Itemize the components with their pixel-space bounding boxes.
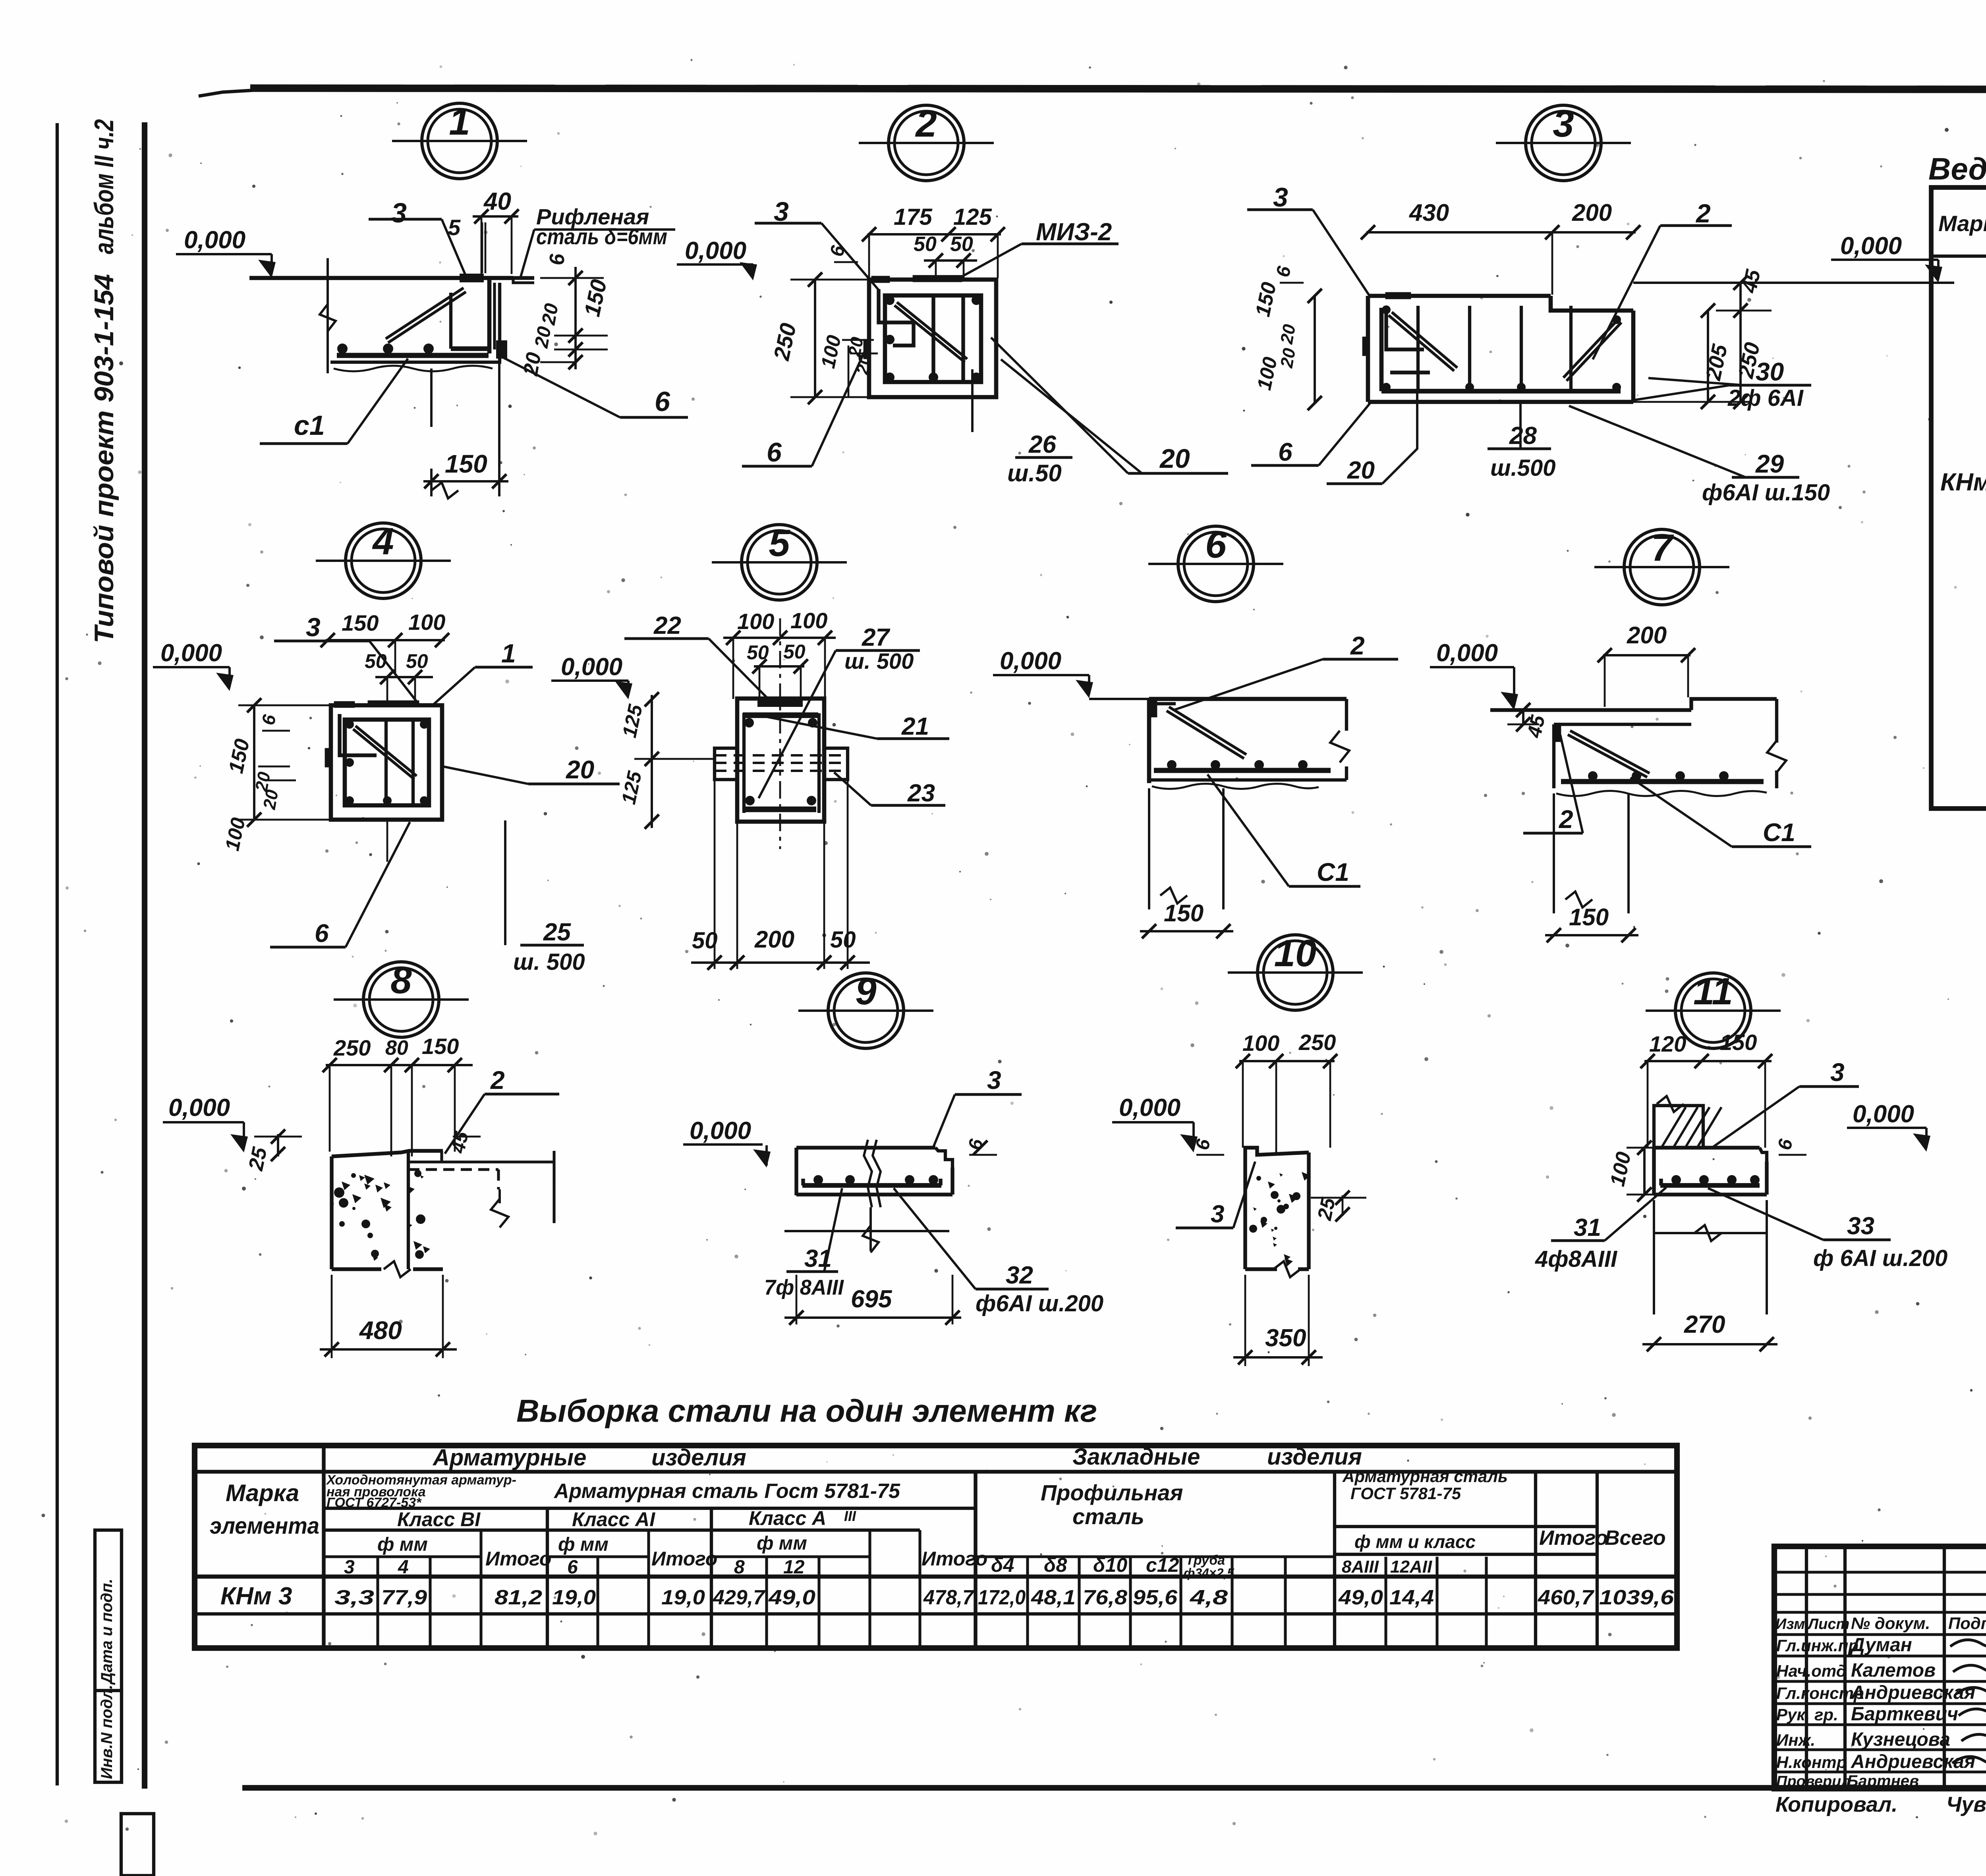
svg-text:Арматурные: Арматурные [432, 1445, 586, 1471]
svg-text:Марка: Марка [226, 1480, 299, 1506]
svg-text:3: 3 [1211, 1200, 1224, 1228]
svg-text:Закладные: Закладные [1072, 1444, 1200, 1470]
svg-text:20: 20 [1347, 457, 1375, 484]
svg-text:270: 270 [1684, 1311, 1725, 1338]
svg-text:Класс А: Класс А [749, 1507, 826, 1529]
svg-text:150: 150 [445, 450, 487, 478]
svg-text:25: 25 [543, 919, 571, 946]
svg-text:7: 7 [1651, 527, 1674, 569]
svg-text:3: 3 [1553, 102, 1574, 145]
svg-text:Ведомость стержней на один: Ведомость стержней на один элемент [1928, 151, 1986, 186]
svg-text:0,000: 0,000 [1840, 232, 1902, 260]
svg-text:49,0: 49,0 [1338, 1586, 1383, 1609]
svg-text:50: 50 [950, 233, 973, 256]
svg-text:95,6: 95,6 [1133, 1586, 1178, 1609]
svg-text:4: 4 [398, 1557, 409, 1578]
svg-text:10: 10 [1274, 932, 1317, 975]
svg-text:480: 480 [359, 1316, 402, 1345]
svg-text:429,7: 429,7 [713, 1586, 765, 1609]
svg-text:460,7: 460,7 [1538, 1586, 1594, 1609]
svg-text:48,1: 48,1 [1031, 1586, 1076, 1609]
svg-text:8: 8 [390, 959, 412, 1002]
svg-text:2: 2 [1695, 199, 1711, 228]
svg-text:δ4: δ4 [991, 1554, 1014, 1576]
svg-text:Итого: Итого [651, 1548, 717, 1570]
svg-text:50: 50 [830, 927, 856, 953]
svg-text:Итого: Итого [485, 1548, 551, 1570]
svg-text:50: 50 [406, 650, 428, 672]
svg-text:172,0: 172,0 [978, 1586, 1026, 1609]
svg-text:3: 3 [391, 197, 407, 228]
svg-text:сталь δ=6мм: сталь δ=6мм [536, 224, 667, 249]
svg-text:20: 20 [538, 302, 562, 327]
svg-text:КНм 3: КНм 3 [1940, 469, 1986, 496]
svg-text:175: 175 [894, 204, 933, 230]
svg-text:20: 20 [1277, 323, 1299, 346]
svg-text:22: 22 [653, 612, 681, 639]
svg-text:31: 31 [1574, 1214, 1601, 1241]
svg-text:c1: c1 [294, 410, 325, 441]
svg-text:150: 150 [1720, 1030, 1757, 1055]
svg-text:50: 50 [914, 233, 937, 256]
svg-text:100: 100 [790, 608, 827, 633]
svg-text:Типовой проект 903-1-154: Типовой проект 903-1-154 [89, 274, 119, 643]
svg-text:Выборка стали на один: Выборка стали на один элемент кг [516, 1393, 1097, 1428]
svg-text:0,000: 0,000 [561, 653, 622, 681]
svg-text:Проверил: Проверил [1776, 1773, 1851, 1790]
svg-text:9: 9 [855, 970, 876, 1013]
svg-text:изделия: изделия [1267, 1444, 1362, 1470]
svg-text:3: 3 [306, 612, 321, 642]
svg-text:4,8: 4,8 [1190, 1586, 1228, 1609]
svg-text:ш. 500: ш. 500 [513, 949, 585, 975]
svg-text:Дата и подп.: Дата и подп. [98, 1579, 116, 1685]
svg-text:0,000: 0,000 [1853, 1100, 1914, 1128]
svg-text:7ф 8АІІІ: 7ф 8АІІІ [764, 1276, 844, 1299]
svg-text:Арматурная сталь: Арматурная сталь [1342, 1467, 1508, 1486]
svg-text:c12: c12 [1146, 1554, 1179, 1576]
svg-text:81,2: 81,2 [495, 1586, 542, 1609]
svg-text:5: 5 [448, 215, 461, 240]
svg-text:30: 30 [1756, 357, 1784, 386]
svg-text:альбом II ч.2: альбом II ч.2 [89, 119, 119, 254]
svg-text:ш. 500: ш. 500 [844, 648, 914, 674]
svg-text:33: 33 [1847, 1212, 1874, 1240]
svg-text:6: 6 [1278, 438, 1292, 466]
svg-text:0,000: 0,000 [1436, 639, 1498, 667]
svg-text:250: 250 [1298, 1030, 1336, 1055]
svg-text:ш.50: ш.50 [1007, 460, 1062, 486]
svg-text:Всего: Всего [1605, 1527, 1666, 1550]
svg-text:20: 20 [259, 788, 282, 811]
svg-text:1: 1 [501, 639, 516, 668]
svg-text:МИЗ-2: МИЗ-2 [1036, 218, 1112, 246]
svg-text:27: 27 [862, 624, 890, 651]
svg-text:Лист: Лист [1807, 1616, 1849, 1633]
svg-text:0,000: 0,000 [168, 1094, 230, 1121]
svg-text:C1: C1 [1317, 858, 1349, 886]
svg-text:1: 1 [449, 100, 470, 143]
svg-text:200: 200 [1572, 199, 1612, 226]
svg-text:Думан: Думан [1849, 1635, 1912, 1656]
svg-text:49,0: 49,0 [768, 1586, 815, 1609]
svg-text:200: 200 [1627, 622, 1667, 648]
svg-text:ГОСТ 5781-75: ГОСТ 5781-75 [1350, 1484, 1461, 1503]
svg-text:Нач.отд: Нач.отд [1776, 1662, 1847, 1680]
svg-text:ф мм: ф мм [558, 1534, 609, 1555]
svg-text:3: 3 [344, 1557, 355, 1578]
svg-text:150: 150 [1164, 900, 1204, 926]
svg-text:ф мм: ф мм [377, 1534, 428, 1555]
svg-text:26: 26 [1028, 431, 1056, 458]
svg-text:4: 4 [372, 520, 394, 563]
svg-text:77,9: 77,9 [381, 1586, 427, 1609]
svg-text:Чувалова: Чувалова [1946, 1793, 1986, 1816]
svg-text:Инж.: Инж. [1776, 1731, 1815, 1749]
svg-text:Бартнев: Бартнев [1847, 1772, 1919, 1790]
svg-text:Изм.: Изм. [1775, 1616, 1809, 1633]
svg-text:ф6АІ ш.200: ф6АІ ш.200 [976, 1291, 1103, 1316]
svg-text:50: 50 [692, 928, 718, 953]
svg-text:C1: C1 [1763, 818, 1795, 847]
svg-text:200: 200 [754, 926, 794, 953]
svg-text:50: 50 [783, 641, 806, 663]
svg-text:1039,6: 1039,6 [1599, 1586, 1674, 1609]
svg-text:20: 20 [1159, 444, 1190, 474]
svg-text:6: 6 [767, 437, 782, 467]
svg-text:2: 2 [490, 1066, 505, 1094]
svg-text:ф34×2,5: ф34×2,5 [1184, 1566, 1234, 1580]
svg-text:ф мм и класс: ф мм и класс [1354, 1531, 1476, 1552]
svg-text:12: 12 [783, 1557, 805, 1578]
svg-text:125: 125 [953, 204, 992, 230]
svg-text:2: 2 [1559, 805, 1573, 834]
svg-text:350: 350 [1265, 1324, 1306, 1352]
svg-text:ш.500: ш.500 [1490, 455, 1555, 481]
svg-text:120: 120 [1649, 1031, 1686, 1056]
svg-text:6: 6 [546, 253, 569, 265]
svg-text:Подп.: Подп. [1948, 1614, 1986, 1633]
svg-text:0,000: 0,000 [1119, 1094, 1180, 1121]
svg-text:элемента: элемента [210, 1513, 319, 1539]
svg-text:100: 100 [1242, 1031, 1279, 1056]
svg-text:Барткевич: Барткевич [1851, 1704, 1958, 1725]
svg-text:ф 6АІ ш.200: ф 6АІ ш.200 [1813, 1245, 1947, 1271]
svg-text:изделия: изделия [651, 1445, 746, 1471]
svg-text:Кузнецова: Кузнецова [1851, 1729, 1950, 1750]
svg-text:12АІІ: 12АІІ [1390, 1557, 1432, 1577]
svg-text:20: 20 [531, 325, 555, 350]
svg-text:8: 8 [734, 1557, 745, 1578]
svg-text:6: 6 [1205, 523, 1227, 566]
svg-text:Итого: Итого [922, 1548, 987, 1570]
svg-text:Итого: Итого [1539, 1527, 1608, 1550]
svg-text:ІІІ: ІІІ [844, 1508, 856, 1524]
svg-text:19,0: 19,0 [552, 1586, 596, 1609]
svg-text:6: 6 [315, 919, 329, 948]
svg-text:6: 6 [655, 386, 670, 417]
svg-text:5: 5 [769, 522, 790, 564]
svg-text:3: 3 [1273, 182, 1288, 212]
svg-text:3: 3 [987, 1066, 1001, 1094]
svg-text:Рук. гр.: Рук. гр. [1776, 1705, 1838, 1724]
svg-text:Калетов: Калетов [1851, 1660, 1936, 1681]
svg-text:14,4: 14,4 [1389, 1586, 1434, 1609]
svg-text:21: 21 [901, 713, 929, 740]
svg-text:100: 100 [737, 609, 774, 634]
svg-text:δ8: δ8 [1044, 1554, 1067, 1576]
svg-text:0,000: 0,000 [1000, 647, 1061, 675]
svg-text:250: 250 [333, 1035, 371, 1060]
svg-text:0,000: 0,000 [690, 1117, 751, 1145]
svg-text:2: 2 [915, 102, 937, 145]
svg-text:100: 100 [408, 610, 445, 635]
svg-text:3: 3 [1830, 1058, 1845, 1087]
svg-text:КНм 3: КНм 3 [220, 1583, 292, 1610]
svg-text:8АІІІ: 8АІІІ [1342, 1557, 1379, 1577]
svg-text:20: 20 [566, 755, 594, 784]
svg-text:0,000: 0,000 [685, 237, 746, 264]
svg-text:150: 150 [342, 610, 379, 635]
svg-text:29: 29 [1755, 450, 1784, 478]
svg-text:19,0: 19,0 [661, 1586, 705, 1609]
svg-text:Класс АІ: Класс АІ [572, 1508, 655, 1531]
svg-text:0,000: 0,000 [160, 639, 222, 667]
svg-text:32: 32 [1006, 1262, 1033, 1289]
svg-text:ф6АІ ш.150: ф6АІ ш.150 [1702, 480, 1830, 506]
svg-text:Н.контр: Н.контр [1776, 1753, 1847, 1772]
svg-text:150: 150 [1569, 904, 1609, 930]
svg-text:3,3: 3,3 [334, 1586, 374, 1609]
svg-text:11: 11 [1693, 970, 1733, 1013]
svg-text:Профильная: Профильная [1041, 1480, 1183, 1505]
svg-text:80: 80 [385, 1036, 408, 1060]
svg-text:δ10: δ10 [1093, 1554, 1127, 1576]
svg-text:150: 150 [422, 1034, 459, 1059]
svg-text:50: 50 [365, 650, 387, 672]
svg-text:23: 23 [907, 780, 935, 807]
svg-text:2: 2 [1350, 631, 1365, 660]
svg-text:76,8: 76,8 [1083, 1586, 1127, 1609]
svg-text:Инв.N подл.: Инв.N подл. [98, 1685, 116, 1779]
svg-text:Гл.инж.пр.: Гл.инж.пр. [1776, 1636, 1863, 1655]
svg-text:Копировал.: Копировал. [1775, 1793, 1897, 1816]
svg-text:№ докум.: № докум. [1851, 1614, 1930, 1633]
svg-text:695: 695 [851, 1285, 893, 1313]
svg-text:ф мм: ф мм [757, 1533, 807, 1554]
svg-text:0,000: 0,000 [184, 226, 245, 254]
svg-text:Класс ВІ: Класс ВІ [397, 1508, 481, 1531]
svg-text:Арматурная сталь Гост 5781-75: Арматурная сталь Гост 5781-75 [553, 1480, 900, 1503]
svg-text:430: 430 [1409, 199, 1449, 226]
svg-text:2ф 6АІ: 2ф 6АІ [1727, 385, 1804, 411]
svg-text:сталь: сталь [1072, 1504, 1144, 1529]
svg-text:4ф8АІІІ: 4ф8АІІІ [1535, 1246, 1618, 1272]
svg-text:20: 20 [1277, 347, 1299, 370]
svg-text:28: 28 [1509, 422, 1537, 450]
svg-text:Марка: Марка [1938, 211, 1986, 236]
svg-text:478,7: 478,7 [923, 1586, 974, 1609]
